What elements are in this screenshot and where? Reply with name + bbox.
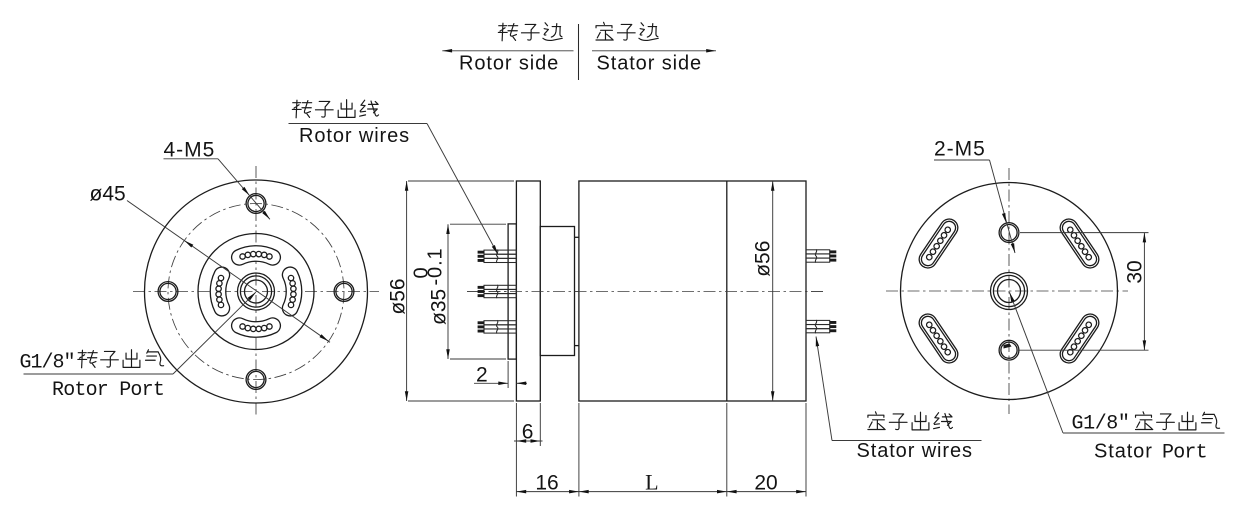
middle centerline redraw over body: [467, 291, 823, 293]
rotor side arrow line: [442, 50, 573, 52]
left view outer flange circle: [145, 180, 368, 403]
svg-text:30: 30: [1124, 260, 1147, 283]
dim 2: [507, 361, 509, 388]
left view inner circle: [198, 234, 314, 350]
dim dia56 left: [408, 180, 514, 182]
flange plate 6mm: [516, 181, 540, 401]
rotor wire bundles (3): [478, 250, 517, 263]
svg-text:16: 16: [535, 472, 558, 495]
right view 2 M5 holes: [999, 223, 1019, 243]
svg-text:Rotor Port: Rotor Port: [52, 379, 164, 402]
label rotor wires with leader: [292, 100, 311, 118]
left view centerlines: [255, 166, 257, 417]
stator side arrow line: [592, 50, 716, 52]
svg-text:20: 20: [754, 472, 777, 495]
svg-text:Stator: Stator: [1094, 441, 1153, 463]
svg-text:2-M5: 2-M5: [934, 138, 986, 161]
svg-text:-0.1: -0.1: [425, 247, 447, 285]
header chinese label: stator side (ding-zi-bian): [596, 22, 613, 40]
svg-text:ø35: ø35: [428, 289, 451, 325]
right view 4 straight wire slots: [1057, 216, 1102, 272]
svg-text:Stator wires: Stator wires: [857, 440, 973, 462]
svg-text:ø56: ø56: [387, 278, 410, 314]
dim dia56 right (inside cap): [772, 181, 774, 401]
stator wire bundles (2): [806, 249, 836, 262]
svg-text:G1/8″: G1/8″: [1072, 413, 1130, 436]
rotor boss dia35 plate: [508, 224, 516, 359]
svg-text:Rotor wires: Rotor wires: [299, 125, 410, 147]
main body rect: [579, 181, 806, 401]
svg-text:Port: Port: [1162, 442, 1207, 465]
right view center port G1/8: [991, 273, 1028, 310]
header chinese label: rotor side (zhuan-zi-bian): [498, 23, 517, 41]
neck section: [540, 227, 574, 356]
dim 30: [1020, 232, 1149, 234]
svg-text:Rotor side: Rotor side: [459, 53, 559, 75]
dims 16 / L / 20: [578, 403, 580, 497]
svg-text:ø45: ø45: [90, 183, 126, 206]
right view centerlines: [1008, 168, 1010, 414]
right view outer circle: [901, 183, 1118, 400]
dim 6: [515, 403, 517, 497]
svg-text:2: 2: [476, 364, 488, 387]
left view bolt circle dia45 (dash-dot): [168, 204, 344, 380]
left view 4 M5 holes: [246, 194, 266, 214]
svg-text:ø56: ø56: [752, 241, 775, 277]
label stator wires with leader: [868, 412, 885, 430]
svg-text:6: 6: [522, 421, 534, 444]
svg-text:L: L: [645, 470, 658, 495]
svg-text:Stator side: Stator side: [597, 53, 703, 75]
left view center port G1/8: [238, 273, 275, 310]
svg-text:G1/8″: G1/8″: [20, 352, 75, 375]
small mark inside lower hole: [1004, 344, 1012, 349]
body/cap divider line: [726, 181, 728, 401]
spigot step lines: [575, 236, 579, 238]
left view 4 curved wire slots: [232, 246, 281, 265]
header divider line: [578, 24, 580, 80]
svg-text:4-M5: 4-M5: [164, 139, 216, 162]
middle view centerline: [467, 291, 823, 293]
dim dia35 with tolerance: [450, 223, 506, 225]
